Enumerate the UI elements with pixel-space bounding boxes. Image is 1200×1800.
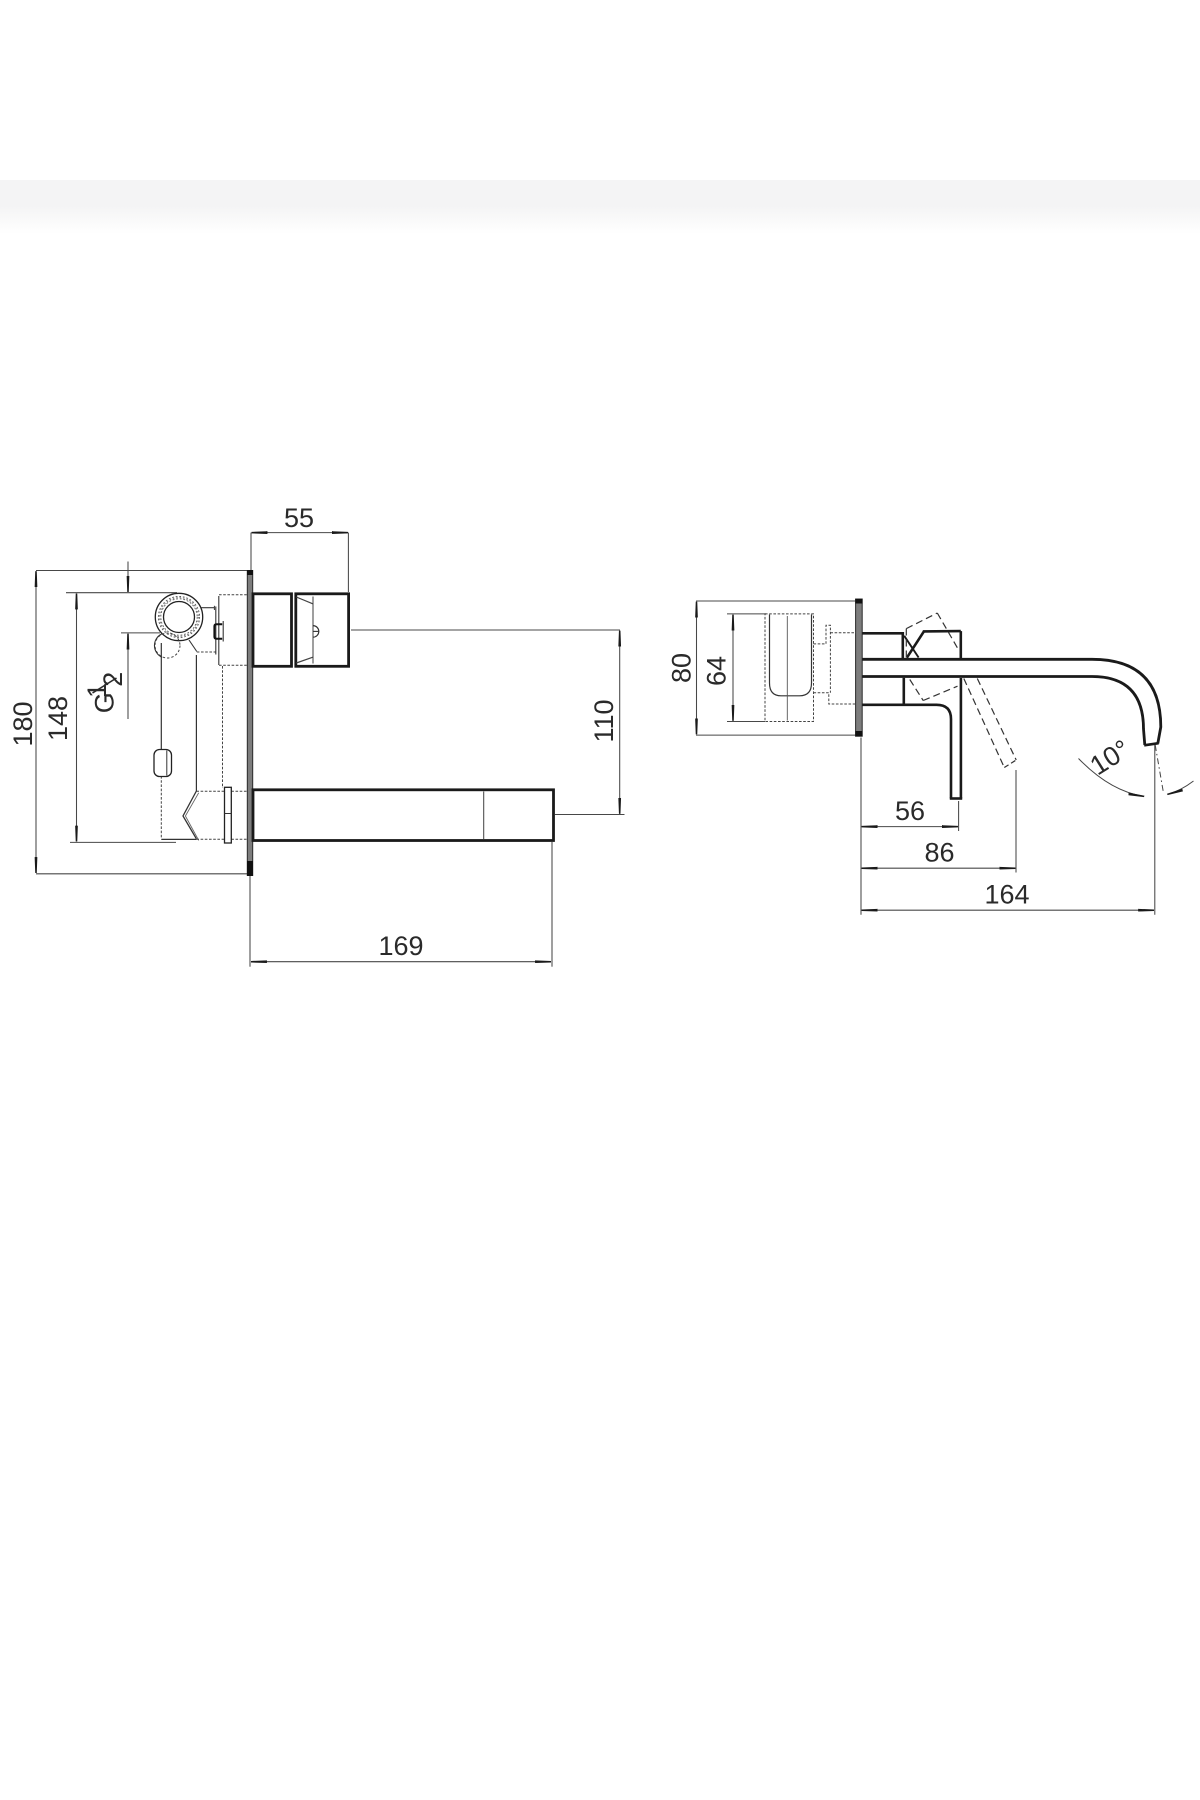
- dim 64 line: [732, 615, 734, 720]
- body bottom hidden 2: [231, 838, 247, 840]
- dim 55 line: [252, 532, 347, 534]
- G1/2 leader arrow: [127, 634, 129, 719]
- cartridge cavity U: [770, 615, 812, 696]
- dim 64 ext top: [727, 613, 766, 615]
- pipe clip cylinder: [154, 750, 172, 777]
- base bottom and lever left edge: [862, 705, 951, 799]
- right plate bottom cap: [855, 731, 862, 737]
- lever head top: [923, 630, 961, 633]
- dim 148 extension top: [66, 592, 177, 594]
- right plate top cap: [855, 599, 862, 604]
- open lever dashed: long right: [977, 679, 1016, 761]
- svg-text:56: 56: [895, 796, 925, 826]
- wall plate bottom cap: [247, 861, 253, 876]
- top connector tick: [213, 606, 215, 610]
- connector diagonal: [189, 640, 197, 652]
- top connector line: [202, 607, 215, 609]
- valve circle outer: [155, 593, 202, 640]
- spout seam: [483, 792, 485, 840]
- lever head right: [959, 631, 962, 658]
- spout tip ext: [1154, 744, 1156, 915]
- spout top hidden: [196, 790, 224, 792]
- inlet centre extension: [121, 632, 160, 634]
- open lever dashed: end cap: [1004, 760, 1016, 768]
- tilted axis dash-dot: [1155, 745, 1163, 793]
- angle arc left: [1079, 759, 1144, 797]
- wall plate top cap: [247, 570, 253, 575]
- svg-text:164: 164: [984, 880, 1029, 910]
- lever chamfer bottom: [296, 657, 313, 663]
- dashed lever ext: [1015, 770, 1017, 873]
- spout top line: [862, 659, 1160, 743]
- lever head inner diagonal: [904, 636, 918, 658]
- spout flange seam: [225, 813, 232, 815]
- svg-text:80: 80: [667, 653, 697, 683]
- dim 80 ext bottom: [696, 734, 857, 736]
- base right edge lower: [902, 678, 905, 704]
- lever seam: [312, 597, 314, 664]
- open lever dashed: pivot left edge: [905, 629, 907, 658]
- dim 56 line: [862, 826, 957, 828]
- lever head diagonal left: [907, 632, 924, 658]
- valve circle inner: [164, 602, 195, 633]
- handle base: [253, 594, 292, 667]
- cartridge centreline: [786, 616, 788, 721]
- valve block bottom (hidden): [219, 664, 247, 666]
- svg-text:86: 86: [924, 838, 954, 868]
- lever pin line: [313, 630, 319, 632]
- background band: [0, 180, 1200, 234]
- dim 180 line: [35, 572, 37, 872]
- pipe bend chevron inner: [185, 793, 198, 841]
- lever bottom cap: [950, 797, 962, 800]
- base top edge: [862, 632, 902, 635]
- body bottom edge: [161, 838, 196, 840]
- lever ext: [958, 801, 960, 831]
- angle arc right: [1168, 781, 1194, 794]
- dim 169 line: [252, 961, 551, 963]
- stem clip edge: [222, 621, 224, 642]
- housing hidden edge: [222, 666, 224, 788]
- dim 80 line: [696, 603, 698, 734]
- valve block step edge: [215, 607, 217, 655]
- svg-text:169: 169: [378, 931, 423, 961]
- valve thread ring outer: [158, 596, 199, 637]
- inlet circle (dashed): [155, 633, 180, 658]
- spout flange: [225, 787, 232, 843]
- spout bottom line: [862, 677, 1144, 746]
- lever pin: [313, 626, 319, 638]
- base right edge upper: [901, 632, 904, 659]
- dim 180 extension bottom: [36, 873, 249, 875]
- open lever dashed: vee right: [923, 686, 957, 700]
- dim 55 ext right: [347, 533, 349, 592]
- plate ext down: [860, 738, 862, 915]
- dim 180 extension top: [36, 570, 249, 572]
- pipe clip edge: [166, 751, 168, 776]
- svg-text:180: 180: [8, 701, 38, 746]
- pipe right edge: [195, 655, 197, 791]
- small arrow above body top: [127, 562, 129, 592]
- dim 169 ext right: [551, 842, 553, 967]
- cartridge housing (hidden): [765, 614, 814, 722]
- connector step lower: [814, 693, 857, 704]
- handle lever: [296, 594, 349, 667]
- dim 164 line: [862, 909, 1153, 911]
- spout top hidden 2: [231, 790, 247, 792]
- svg-text:148: 148: [43, 696, 73, 741]
- svg-text:55: 55: [284, 503, 314, 533]
- svg-text:64: 64: [702, 656, 732, 686]
- dim 110 ext top (handle axis): [351, 629, 620, 631]
- lever chamfer top: [296, 597, 313, 604]
- valve thread ring mid: [160, 598, 199, 637]
- svg-text:110: 110: [589, 699, 619, 742]
- open lever dashed: top left: [906, 613, 937, 629]
- pipe left edge: [160, 643, 162, 750]
- dim 169 ext left: [249, 876, 251, 967]
- dim 110 line: [619, 632, 621, 814]
- svg-text:10°: 10°: [1085, 734, 1136, 781]
- spout (left view): [253, 790, 554, 841]
- connector step piece (hidden): [814, 625, 831, 693]
- spout tip cap: [1144, 743, 1158, 745]
- dim 55 ext left: [250, 533, 252, 570]
- wall plate right view: [856, 599, 863, 736]
- connector dotted line: [197, 651, 216, 653]
- G1/2 label: [82, 672, 128, 714]
- open lever dashed: vee left: [910, 680, 923, 701]
- body bottom hidden: [196, 838, 224, 840]
- dim 80 ext top: [696, 600, 857, 602]
- connector upper hidden line: [830, 632, 856, 634]
- pipe left edge lower (hidden): [160, 776, 162, 839]
- dim 148 line: [76, 594, 78, 841]
- open lever dashed: long left: [964, 679, 1005, 768]
- inlet circle solid arc: [154, 634, 162, 658]
- valve block left edge: [218, 596, 220, 665]
- lever right edge: [960, 678, 963, 799]
- dim 64 ext bottom: [727, 721, 765, 723]
- dim 110 ext bottom (spout axis): [555, 814, 625, 816]
- wall plate (edge-on): [247, 571, 252, 876]
- valve block top (hidden): [219, 594, 247, 596]
- cartridge stem clip: [214, 624, 222, 638]
- dim 148 extension bottom: [70, 841, 176, 843]
- open lever dashed: top right: [937, 613, 958, 649]
- pipe bend chevron: [183, 791, 196, 839]
- valve thread dashed rings: [161, 599, 197, 635]
- dim 86 line: [862, 867, 1014, 869]
